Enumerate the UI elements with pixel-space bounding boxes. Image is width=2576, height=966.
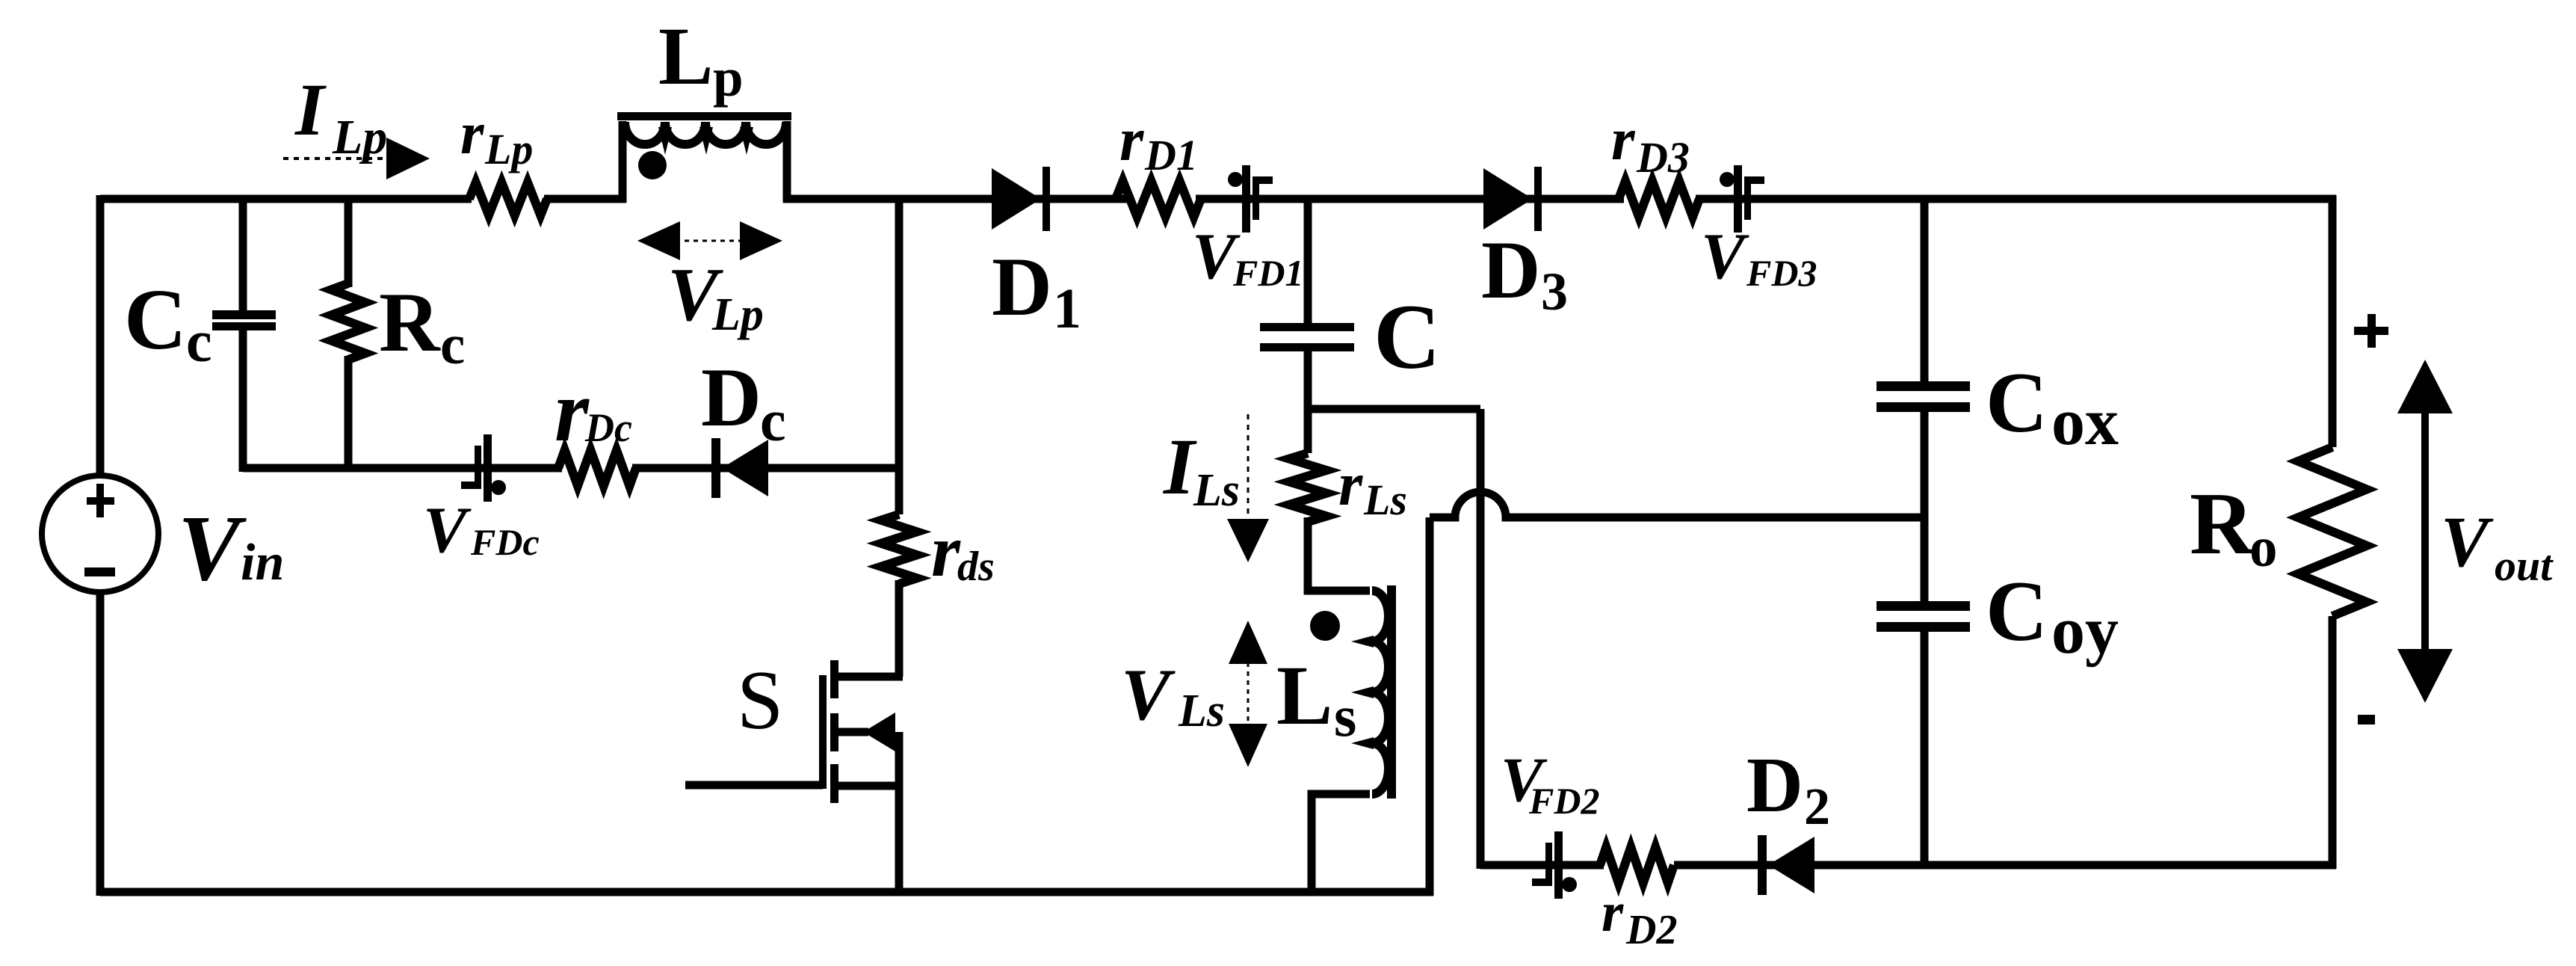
Vin minus sign [84, 567, 115, 576]
inductor Ls coil cusp 2 [1351, 686, 1374, 698]
wire: top rail between rD1 and D3 (through VFD1, node B) [1196, 195, 1624, 203]
resistor rDc [558, 450, 636, 486]
voltage arrow Vout shaft [2421, 404, 2429, 665]
svg-text:V: V [423, 494, 472, 567]
svg-text:r: r [1338, 449, 1363, 518]
transistor S channel middle bar [830, 713, 838, 751]
wire: C branch top stub [1304, 199, 1312, 324]
svg-text:o: o [2249, 517, 2278, 579]
resistor rD2 [1600, 847, 1674, 883]
svg-text:c: c [440, 314, 465, 376]
wire: top rail between Lp and D1/node A [783, 195, 1128, 203]
wire: hop-column vertical (C junction row to D2 row) [1477, 409, 1485, 869]
Vin plus sign [87, 497, 114, 505]
inductor Lp coil cusp 3 [740, 127, 753, 155]
svg-text:FDc: FDc [470, 521, 540, 563]
voltage arrow VLp right head [740, 221, 782, 260]
svg-text:r: r [555, 362, 590, 460]
wire: top rail between rD3 and top-right corner (through VFD3) [1696, 195, 2336, 203]
wire: Rc top stub [345, 199, 353, 287]
svg-text:C: C [1986, 564, 2048, 659]
transistor S channel top bar [830, 660, 838, 698]
inductor Lp coil cusp 1 [658, 127, 672, 155]
voltage source VFDc (battery) [484, 434, 492, 502]
current arrow ILs head [1227, 519, 1269, 562]
svg-text:r: r [1611, 105, 1636, 173]
voltage arrow VLp left head [637, 221, 680, 260]
wire: rds to MOSFET drain [895, 580, 904, 677]
wire: Cox top stub [1921, 199, 1929, 385]
svg-text:r: r [931, 509, 961, 592]
svg-text:D: D [701, 351, 762, 444]
svg-text:Ls: Ls [1193, 465, 1240, 516]
voltage arrow VLs dashed line [1247, 636, 1250, 755]
voltage source VFD2 (battery) [1554, 831, 1563, 899]
capacitor Coy plates [1877, 601, 1970, 611]
voltage arrow VLs bottom head [1229, 724, 1267, 767]
inductor Lp right riser [783, 121, 791, 203]
wire: mid-rail vertical down to bottom rail [1426, 517, 1434, 896]
resistor rds [881, 514, 917, 584]
inductor Lp coil [625, 122, 786, 144]
voltage arrow Vout top head [2397, 360, 2453, 413]
svg-text:3: 3 [1541, 262, 1568, 322]
wire: Cox bottom to mid junction to Coy top [1921, 408, 1929, 605]
svg-text:in: in [241, 534, 284, 591]
voltage source VFD3 (battery) [1734, 165, 1742, 233]
svg-text:1: 1 [1053, 277, 1081, 340]
svg-text:C: C [124, 272, 187, 368]
svg-text:R: R [2190, 474, 2255, 573]
svg-text:p: p [713, 47, 744, 108]
svg-text:r: r [1601, 882, 1624, 944]
wire: C branch bottom stub to rLs [1304, 350, 1312, 453]
svg-text:c: c [760, 388, 786, 453]
inductor Lp polarity dot [638, 151, 667, 179]
wire: MOSFET source vertical to bottom rail [895, 732, 904, 892]
svg-text:D3: D3 [1636, 133, 1690, 182]
resistor Rc [331, 283, 365, 360]
transistor S channel bottom bar [830, 764, 838, 803]
svg-text:D1: D1 [1144, 131, 1198, 179]
voltage arrow Vout bottom head [2397, 649, 2453, 703]
inductor Lp coil cusp 2 [699, 127, 713, 155]
output plus sign [2354, 327, 2388, 335]
svg-text:L: L [1276, 649, 1332, 742]
diode Dc [711, 438, 720, 498]
inductor Ls coil cusp 1 [1351, 636, 1374, 647]
svg-text:oy: oy [2051, 594, 2119, 668]
diode D1 [992, 168, 1041, 230]
wire: Ls bottom corner to bottom rail [1312, 794, 1370, 892]
svg-text:S: S [737, 654, 783, 747]
wire: top rail between rLp and Lp [544, 195, 626, 203]
wire: Cc bottom stub [239, 329, 247, 472]
diode D3 [1483, 168, 1533, 230]
svg-text:V: V [1121, 654, 1176, 736]
voltage source Vin circle [42, 476, 158, 592]
inductor Lp left riser [619, 121, 627, 203]
svg-text:V: V [2441, 502, 2494, 582]
svg-text:V: V [178, 497, 247, 600]
wire: Rc bottom stub [345, 356, 353, 472]
voltage arrow VLp dashed line [658, 240, 762, 242]
svg-text:C: C [1374, 286, 1441, 388]
svg-text:Ls: Ls [1363, 476, 1407, 524]
svg-text:r: r [460, 99, 485, 167]
current arrow ILp dashed line [283, 157, 390, 160]
resistor rD1 [1116, 181, 1201, 217]
wire: Dc row left (Cc/Rc bottom to rDc) [243, 464, 562, 473]
svg-text:Lp: Lp [332, 110, 387, 164]
svg-text:D: D [1481, 224, 1540, 316]
capacitor Cc plates [212, 310, 276, 319]
svg-text:FD3: FD3 [1746, 252, 1817, 294]
wire: Dc row right (rDc through Dc to switch node) [632, 464, 903, 473]
transistor S drain lead [835, 673, 903, 681]
current arrow ILs dashed line [1247, 414, 1250, 520]
wire: bottom rail [100, 888, 1433, 896]
capacitor Cox plates [1877, 381, 1970, 391]
svg-text:D2: D2 [1625, 907, 1677, 953]
current arrow ILp head [386, 138, 430, 179]
resistor rLp [469, 182, 547, 215]
svg-text:Ls: Ls [1178, 686, 1225, 736]
svg-text:I: I [1162, 423, 1197, 511]
voltage source VFD1 (battery) [1242, 165, 1250, 233]
svg-text:C: C [1986, 355, 2048, 450]
wire: Cc top stub [239, 199, 247, 312]
wire: rLs to Ls corner [1308, 517, 1370, 591]
wire: D2 row right (rD2 through D2 to Ro bottom corner) [1674, 861, 2336, 870]
wire: Coy bottom stub to D2 row [1921, 628, 1929, 865]
transistor S body arrow [863, 713, 895, 751]
wire: mid rail with hop over hop-column [1430, 492, 1924, 517]
svg-text:ox: ox [2051, 385, 2119, 459]
svg-text:R: R [379, 276, 441, 369]
inductor Ls coil cusp 3 [1351, 737, 1374, 749]
svg-text:Lp: Lp [484, 125, 533, 173]
svg-text:out: out [2495, 541, 2554, 590]
svg-text:2: 2 [1804, 778, 1830, 836]
output minus sign [2358, 715, 2375, 724]
resistor Ro [2298, 447, 2367, 616]
svg-text:r: r [1119, 105, 1144, 173]
inductor Lp core bar [617, 112, 791, 120]
transistor S source lead [835, 782, 903, 790]
inductor Ls coil [1372, 591, 1389, 794]
inductor Ls core bar [1387, 585, 1396, 799]
wire: left rail upper (node A to Vin) [96, 195, 105, 477]
wire: D2 row left (hop column to rD2 through VFD2) [1480, 861, 1604, 870]
wire: left rail lower (Vin- to bottom rail) [96, 591, 105, 896]
resistor rD3 [1619, 181, 1699, 217]
wire: right rail upper (corner to Ro) [2329, 195, 2337, 447]
wire: C-bottom junction to hop-column [1308, 405, 1480, 413]
wire: top rail left segment (Vin+ to rLp) [100, 195, 472, 203]
svg-text:Dc: Dc [584, 405, 632, 450]
svg-text:I: I [294, 68, 327, 151]
wire: switch-node vertical upper (top rail to rds) [895, 199, 904, 514]
svg-text:V: V [1701, 221, 1749, 293]
svg-text:D: D [992, 241, 1052, 333]
svg-text:s: s [1334, 683, 1356, 748]
wire: right rail lower (Ro to D2 row corner) [2329, 616, 2337, 869]
inductor Ls polarity dot [1310, 611, 1340, 641]
svg-text:FD2: FD2 [1528, 780, 1599, 822]
transistor S gate bar [819, 675, 827, 789]
svg-text:FD1: FD1 [1232, 252, 1303, 294]
svg-text:Lp: Lp [711, 289, 764, 340]
svg-text:ds: ds [957, 544, 995, 590]
transistor S gate lead [685, 781, 823, 790]
svg-text:c: c [186, 309, 212, 374]
svg-text:D: D [1746, 741, 1803, 828]
voltage arrow VLs top head [1229, 621, 1267, 664]
svg-text:L: L [658, 10, 713, 102]
resistor rLs [1289, 453, 1326, 522]
transistor S body lead [835, 728, 868, 736]
diode D2 [1758, 835, 1767, 895]
capacitor C plates [1260, 323, 1354, 331]
